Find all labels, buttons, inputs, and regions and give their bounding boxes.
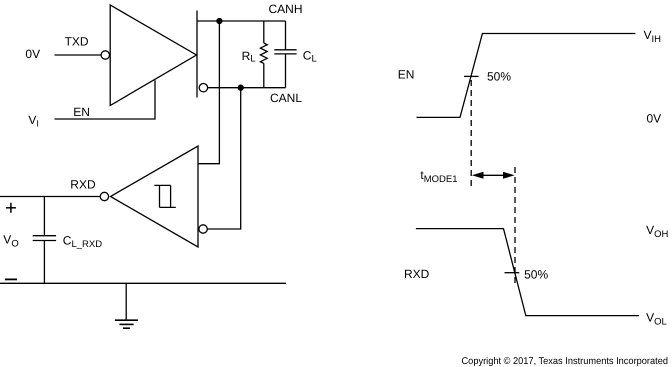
resistor RL	[260, 21, 267, 88]
svg-text:0V: 0V	[647, 112, 662, 126]
plus sign	[6, 203, 16, 213]
receiver output bubble (apex)	[100, 192, 108, 200]
svg-text:RXD: RXD	[404, 267, 430, 281]
capacitor CL_RXD	[33, 197, 56, 284]
wire CANH (top output)	[197, 20, 286, 22]
svg-text:50%: 50%	[487, 70, 511, 84]
svg-text:CANH: CANH	[269, 2, 303, 16]
svg-text:CL: CL	[303, 49, 317, 65]
dashed line at RXD 50% point	[514, 167, 516, 285]
receiver op-amp U2 (RXD receiver triangle)	[111, 146, 199, 247]
minus sign	[5, 278, 17, 280]
50% tick on RXD edge	[505, 272, 520, 274]
TXD input bubble	[101, 51, 109, 59]
svg-text:CL_RXD: CL_RXD	[63, 234, 102, 251]
driver op-amp U1 (TXD driver triangle)	[110, 5, 196, 106]
svg-text:50%: 50%	[524, 268, 548, 282]
svg-text:RL: RL	[242, 49, 256, 65]
node junction on CANL wire	[238, 85, 243, 90]
svg-text:VOH: VOH	[646, 223, 668, 240]
50% tick on EN edge	[464, 75, 479, 77]
svg-text:Copyright © 2017, Texas Instru: Copyright © 2017, Texas Instruments Inco…	[462, 356, 669, 367]
receiver input bubble (right side)	[199, 225, 207, 233]
svg-text:VI: VI	[28, 113, 39, 129]
svg-text:CANL: CANL	[270, 91, 302, 105]
svg-text:VO: VO	[3, 232, 18, 249]
tMODE1 arrow (double headed)	[472, 172, 515, 179]
wire EN	[55, 80, 156, 119]
svg-text:VOL: VOL	[646, 311, 667, 328]
driver low output bubble	[199, 84, 207, 92]
dashed line from EN 50% point	[470, 80, 472, 186]
ground	[115, 283, 138, 328]
node junction on CANH wire	[217, 19, 222, 24]
wire ground rail	[0, 282, 286, 284]
wire TXD input	[55, 54, 102, 56]
svg-text:VIH: VIH	[644, 28, 662, 45]
RXD waveform	[416, 229, 639, 316]
svg-text:EN: EN	[73, 105, 90, 119]
capacitor CL	[274, 21, 296, 88]
EN waveform	[417, 34, 636, 118]
svg-text:tMODE1: tMODE1	[420, 168, 457, 185]
wire from CANL node down to receiver bubble	[208, 88, 241, 229]
svg-text:TXD: TXD	[65, 35, 89, 49]
svg-text:EN: EN	[398, 67, 415, 81]
svg-text:0V: 0V	[25, 47, 40, 61]
svg-text:RXD: RXD	[70, 178, 96, 192]
wire from CANH node down to receiver input	[198, 21, 219, 164]
wire RXD output	[0, 196, 100, 198]
wire CANL (bottom output)	[208, 87, 286, 89]
driver output bar	[196, 11, 198, 98]
hysteresis symbol inside receiver	[154, 185, 176, 207]
